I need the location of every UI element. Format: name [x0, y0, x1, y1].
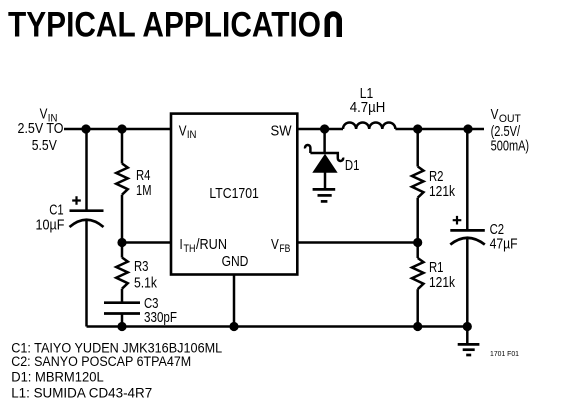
- svg-text:GND: GND: [222, 253, 249, 270]
- svg-text:I: I: [180, 236, 183, 253]
- svg-text:330pF: 330pF: [144, 309, 177, 326]
- svg-text:V: V: [491, 106, 499, 123]
- label R4 value: [136, 167, 152, 199]
- svg-text:4.7µH: 4.7µH: [350, 99, 386, 116]
- wire VFB to divider: [297, 241, 418, 244]
- node junction dot R4/R3/ITH: [117, 238, 126, 247]
- op-amp U1 LTC1701 box: [171, 114, 297, 275]
- svg-text:IN: IN: [187, 129, 197, 141]
- resistor R3: [116, 243, 128, 303]
- wire top-left rail VIN to IC: [64, 128, 171, 131]
- svg-text:2.5V TO: 2.5V TO: [18, 120, 64, 137]
- ground below D1: [313, 189, 336, 201]
- svg-text:1M: 1M: [136, 182, 152, 199]
- svg-text:121k: 121k: [429, 274, 455, 291]
- node junction dot R4 tap: [117, 124, 126, 133]
- diode D1 schottky: [305, 129, 343, 188]
- node junction dot C3 bottom: [117, 322, 126, 331]
- node junction dot GND pin: [229, 322, 238, 331]
- wire L1 to VOUT: [395, 128, 484, 131]
- svg-text:SW: SW: [271, 122, 293, 139]
- pin VFB: [271, 236, 290, 255]
- capacitor C3: [104, 303, 140, 327]
- svg-text:D1: D1: [345, 157, 360, 174]
- wire SW to L1: [297, 128, 343, 131]
- svg-text:TYPICAL APPLICATIO: TYPICAL APPLICATIO: [8, 6, 321, 45]
- capacitor C2: [450, 129, 485, 327]
- inductor L1: [343, 122, 395, 129]
- node junction dot R2 tap: [413, 124, 422, 133]
- node VOUT label: [491, 106, 529, 154]
- resistor R4: [116, 129, 128, 243]
- svg-text:5.5V: 5.5V: [32, 137, 57, 154]
- label C1 value: [36, 202, 65, 234]
- svg-text:L1: SUMIDA CD43-4R7: L1: SUMIDA CD43-4R7: [11, 386, 152, 401]
- capacitor C1: [70, 129, 104, 327]
- label R1 value: [429, 259, 455, 291]
- svg-text:FB: FB: [279, 243, 290, 255]
- node junction dot C2 tap: [463, 124, 472, 133]
- label R2 value: [429, 168, 455, 200]
- node VIN label: [18, 106, 64, 154]
- pin ITH/RUN: [180, 236, 228, 255]
- svg-text:5.1k: 5.1k: [134, 275, 157, 292]
- svg-text:D1: MBRM120L: D1: MBRM120L: [11, 370, 104, 385]
- label L1 value: [350, 85, 386, 116]
- label C2 value: [490, 221, 518, 253]
- label C3 value: [144, 295, 177, 326]
- wire GND stem: [233, 275, 236, 327]
- node junction dot R1 bottom: [413, 322, 422, 331]
- svg-text:/RUN: /RUN: [196, 236, 227, 253]
- pin VIN: [179, 122, 197, 141]
- svg-text:121k: 121k: [429, 183, 455, 200]
- svg-text:R3: R3: [134, 258, 149, 275]
- svg-text:500mA): 500mA): [491, 137, 529, 154]
- svg-text:47µF: 47µF: [490, 236, 518, 253]
- label R3 value: [134, 258, 157, 292]
- svg-text:LTC1701: LTC1701: [209, 185, 258, 202]
- node junction dot D1 tap: [320, 124, 329, 133]
- label parts list: [11, 341, 222, 401]
- ground bottom right: [458, 327, 480, 356]
- svg-text:TH: TH: [184, 243, 196, 255]
- wire bottom rail: [87, 325, 468, 328]
- resistor R2: [412, 129, 424, 243]
- title TYPICAL APPLICATION: [8, 6, 339, 45]
- svg-text:V: V: [179, 122, 187, 139]
- svg-text:C2: SANYO POSCAP 6TPA47M: C2: SANYO POSCAP 6TPA47M: [11, 354, 191, 369]
- resistor R1: [412, 243, 424, 327]
- svg-text:V: V: [271, 236, 279, 253]
- wire ITH/RUN to IC: [122, 241, 171, 244]
- node junction dot C1 tap: [81, 124, 90, 133]
- node junction dot R2/R1: [413, 238, 422, 247]
- svg-text:1701 F01: 1701 F01: [490, 351, 519, 358]
- svg-text:10µF: 10µF: [36, 217, 65, 234]
- node junction dot C2 bottom: [463, 322, 472, 331]
